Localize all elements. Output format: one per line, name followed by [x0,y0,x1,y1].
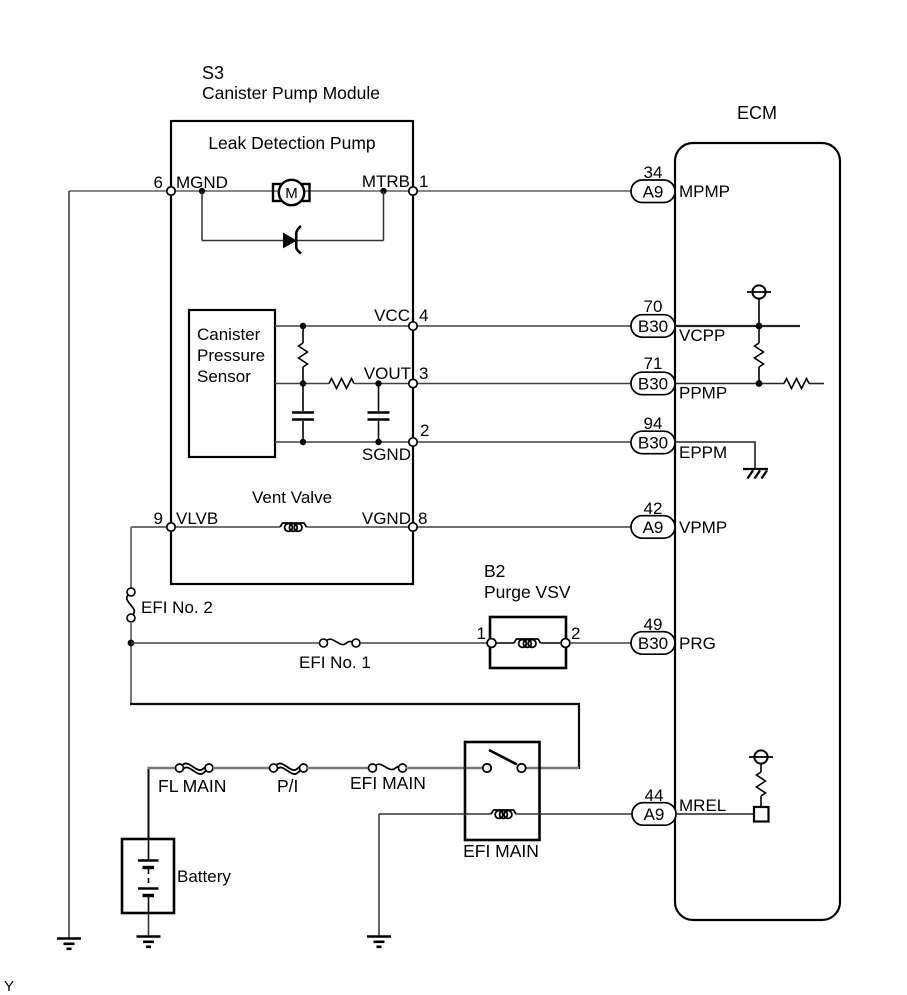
svg-text:70: 70 [644,297,663,316]
pin 9 VLVB open circle [167,523,175,531]
wire SGND row [275,441,631,443]
svg-text:VPMP: VPMP [679,518,727,537]
pin 3 VOUT open circle [409,379,417,387]
svg-text:MREL: MREL [679,796,726,815]
wire VLVB down branch [130,527,132,588]
node VOUT junction right [375,380,381,386]
coil relay EFI MAIN [491,810,516,818]
svg-text:2: 2 [571,624,580,643]
battery cells [138,839,159,913]
box Battery [122,839,174,913]
wire PPMP resistor tail [809,383,824,385]
capacitor C2 [368,413,390,420]
resistor R sensor pullup [299,343,308,367]
fuse EFI No.2 [127,588,135,622]
wire battery power row [148,767,177,769]
svg-text:VCPP: VCPP [679,326,725,345]
wire terminal to VCPP row [758,299,760,343]
svg-text:VGND: VGND [362,509,411,528]
wire MREL inside ECM [676,813,754,815]
svg-text:Pressure: Pressure [197,346,265,365]
switch relay contact [483,750,526,772]
resistor R pull-up VCPP [755,343,764,367]
motor U pump motor [273,180,310,205]
wire sensor branch x303 lower [302,421,304,442]
svg-text:SGND: SGND [362,445,411,464]
svg-text:VCC: VCC [374,306,410,325]
node MGND junction [199,188,205,194]
svg-text:EFI No. 2: EFI No. 2 [141,598,213,617]
fuse EFI MAIN [369,764,407,772]
svg-text:1: 1 [419,172,428,191]
wire VOUT row right [354,383,631,385]
resistor R pull-up MREL [757,772,766,796]
wire relay coil row left outside [379,813,491,815]
wire sensor branch x378 lower [378,421,380,442]
svg-text:Sensor: Sensor [197,367,251,386]
wire PPMP inside ECM [675,383,784,385]
box S3 Leak Detection Pump module [171,121,413,584]
connector oval 44 A9 MREL [632,786,726,825]
wire sensor branch x303 mid [302,367,304,411]
node PPMP junction [756,380,763,387]
box relay EFI MAIN [465,742,540,840]
svg-text:Y: Y [4,978,14,995]
svg-text:VLVB: VLVB [176,509,218,528]
connector oval 49 B30 PRG [631,615,716,654]
ground relay coil [367,937,391,947]
svg-text:A9: A9 [643,518,664,537]
svg-text:B2: B2 [484,561,505,581]
pin 8 VGND open circle [409,523,417,531]
svg-text:M: M [285,185,298,202]
svg-text:8: 8 [418,509,427,528]
wire sensor branch x378 upper [378,384,380,412]
pin 2 B2 open circle [561,639,570,648]
wire between FL MAIN and P/I [213,767,270,769]
svg-text:VOUT: VOUT [364,364,411,383]
wire diode branch horizontal [202,240,384,242]
wire inside B2 left [496,642,514,644]
wire VOUT row left [275,383,329,385]
battery terminal symbol lower [749,750,773,763]
wire terminal to resistor [760,764,762,772]
svg-text:MTRB: MTRB [362,172,410,191]
svg-text:1: 1 [477,624,486,643]
resistor R series PPMP [784,379,809,389]
box B2 Purge VSV [490,617,566,668]
node SGND junction right [375,439,381,445]
wire coil to ground vertical [378,814,380,936]
wire diode branch left vertical [201,191,203,241]
inductor L purge VSV [514,639,541,647]
wire relay switch out to vertical [525,767,579,769]
svg-text:EFI No. 1: EFI No. 1 [299,653,371,672]
svg-text:EFI MAIN: EFI MAIN [350,773,426,793]
svg-text:2: 2 [420,421,429,440]
wire PRG row mid [360,642,488,644]
connector oval 94 B30 EPPM [631,414,727,462]
load square MREL [754,807,769,822]
wire between P/I and EFI MAIN fuse [307,767,369,769]
diode D1 [284,226,302,254]
wire battery to ground [148,913,150,936]
fuse P/I fusible link [270,763,308,774]
pin 1 MTRB open circle [409,187,417,195]
svg-text:ECM: ECM [737,103,777,123]
wire resistor to PPMP row [758,367,760,384]
node SGND junction left [300,439,306,445]
inductor L vent valve [280,523,307,531]
resistor R sensor series [329,379,354,389]
wire battery feed vertical [148,767,150,839]
wire below fuse to junction [130,622,132,703]
svg-text:Vent Valve: Vent Valve [252,488,332,507]
wire inside B2 right [541,642,561,644]
svg-text:Leak Detection Pump: Leak Detection Pump [208,133,375,153]
svg-text:MPMP: MPMP [679,182,730,201]
chassis ground EPPM [743,469,768,479]
svg-text:A9: A9 [644,805,665,824]
svg-text:Battery: Battery [177,867,231,886]
pin 6 MGND open circle [167,187,175,195]
svg-text:EFI MAIN: EFI MAIN [463,841,539,861]
wire junction down to relay feed [130,704,579,769]
battery terminal symbol upper [747,285,771,298]
wire fuse to relay [406,767,483,769]
fuse FL MAIN fusible link [176,763,214,774]
svg-text:71: 71 [644,354,663,373]
pin 2 SGND open circle [409,438,417,446]
svg-text:Canister Pump Module: Canister Pump Module [202,83,380,103]
wire MGND-MTRB row to MPMP [69,190,631,192]
wire VLVB-VGND row left [131,526,280,528]
wire PRG row right [570,642,631,644]
connector oval 34 A9 MPMP [631,163,730,203]
pin 1 B2 open circle [487,639,496,648]
wire relay coil row right to MREL oval [516,813,632,815]
svg-text:A9: A9 [643,183,664,202]
wire resistor to load [760,796,762,807]
pin 4 VCC open circle [409,322,417,330]
ground far-left [57,939,81,949]
svg-text:P/I: P/I [277,776,298,796]
ground battery [137,937,161,947]
svg-text:PRG: PRG [679,634,716,653]
svg-text:B30: B30 [638,634,668,653]
svg-text:PPMP: PPMP [679,384,727,403]
svg-text:FL MAIN: FL MAIN [158,776,226,796]
svg-text:Canister: Canister [197,325,261,344]
connector oval 42 A9 VPMP [631,499,727,538]
wire sensor branch x303 upper [302,326,304,343]
wire diode branch right vertical [383,191,385,241]
svg-text:Purge VSV: Purge VSV [484,582,571,602]
node VCC junction [300,323,306,329]
svg-text:S3: S3 [202,63,224,83]
box Canister Pressure Sensor [189,310,275,457]
node PRG junction [128,640,135,647]
fuse EFI No.1 [320,639,361,647]
node VOUT junction left [300,380,306,386]
svg-text:94: 94 [644,414,663,433]
wire VCC row [275,325,631,327]
svg-text:B30: B30 [638,434,668,453]
wire far-left vertical to ground [68,191,70,938]
capacitor C1 [292,413,314,420]
wire VCPP inside ECM [675,325,800,327]
connector oval 70 B30 VCPP [631,297,725,345]
svg-text:B30: B30 [638,317,668,336]
svg-text:9: 9 [154,509,163,528]
connector oval 71 B30 PPMP [631,354,727,403]
svg-text:B30: B30 [638,375,668,394]
box ECM [675,143,840,920]
node VCPP junction [756,323,763,330]
svg-text:EPPM: EPPM [679,443,727,462]
wire VLVB-VGND row right [307,526,632,528]
svg-text:6: 6 [154,173,163,192]
wire EPPM inside ECM [675,442,755,468]
svg-text:3: 3 [419,364,428,383]
svg-text:4: 4 [419,306,428,325]
wire PRG row left [131,642,320,644]
node MTRB junction [380,188,386,194]
